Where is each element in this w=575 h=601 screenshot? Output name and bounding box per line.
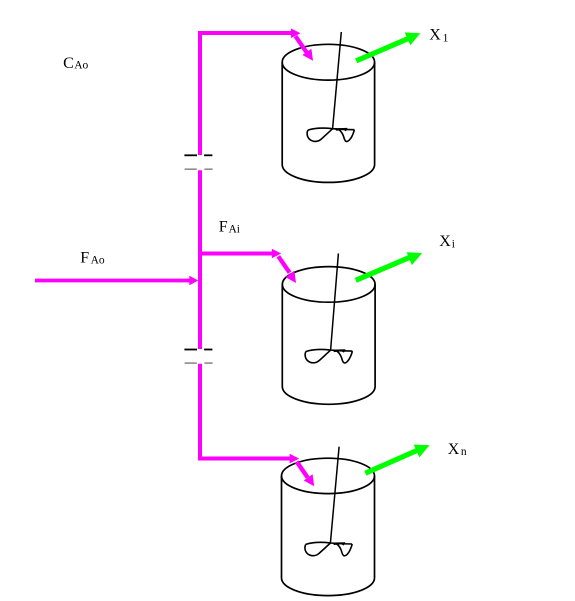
svg-text:Ai: Ai — [229, 224, 241, 236]
tank reactor 3: vessel — [282, 458, 375, 595]
impeller 1 — [307, 128, 354, 142]
impeller 3 — [305, 542, 352, 556]
wire: manifold segment A with top branch — [200, 33, 291, 155]
svg-text:Ao: Ao — [91, 254, 105, 266]
svg-text:1: 1 — [443, 33, 449, 45]
tank reactor 1: vessel — [282, 44, 374, 182]
label C_Ao — [63, 55, 88, 72]
arrow: product X_n — [365, 445, 429, 474]
svg-text:n: n — [461, 446, 467, 458]
arrow: diagonal into tank 1 — [296, 36, 308, 53]
impeller 2 — [305, 349, 352, 363]
wire: manifold segment C with bottom branch — [200, 364, 290, 459]
break mark 1 upper dash — [184, 154, 212, 156]
stirrer shaft 3 — [330, 447, 339, 543]
break mark 1 lower dash — [185, 168, 213, 170]
arrowhead: top branch — [291, 28, 301, 38]
label X_n — [448, 441, 467, 458]
label X_1 — [429, 26, 448, 44]
arrow: product X_i — [356, 252, 422, 280]
wire: manifold segment B — [198, 170, 202, 349]
label F_Ai — [219, 219, 240, 236]
svg-text:F: F — [219, 219, 228, 236]
break mark 2 lower dash — [185, 362, 213, 364]
stirrer shaft 2 — [331, 254, 339, 351]
svg-text:X: X — [439, 233, 451, 250]
svg-text:X: X — [429, 26, 441, 43]
svg-text:C: C — [63, 55, 74, 72]
label F_Ao — [80, 250, 105, 267]
svg-text:X: X — [448, 441, 460, 458]
svg-text:i: i — [452, 238, 455, 250]
arrow: feed F_Ao — [35, 279, 190, 283]
svg-text:F: F — [80, 250, 89, 267]
arrowhead: bottom branch — [290, 454, 300, 464]
arrow: diagonal into tank 3 — [297, 462, 308, 478]
arrow: product X_1 — [356, 32, 420, 61]
arrow: diagonal into tank 2 — [278, 256, 289, 272]
svg-text:Ao: Ao — [74, 60, 88, 72]
stirrer shaft 1 — [333, 32, 342, 129]
tank reactor 2: vessel — [282, 267, 375, 405]
label X_i — [439, 233, 455, 250]
arrow: middle branch F_Ai — [200, 252, 272, 256]
break mark 2 upper dash — [184, 349, 212, 351]
